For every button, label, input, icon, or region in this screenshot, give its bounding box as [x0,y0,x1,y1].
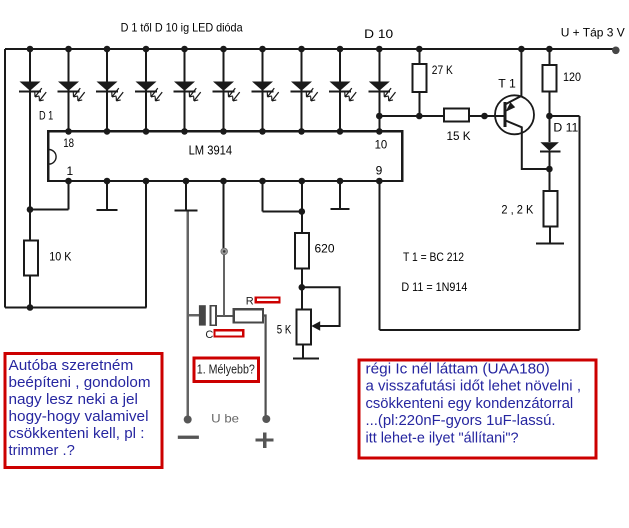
svg-text:5 K: 5 K [277,323,292,337]
svg-text:T 1: T 1 [498,77,516,91]
svg-text:120: 120 [563,70,581,84]
svg-text:D 11 = 1N914: D 11 = 1N914 [401,280,467,294]
svg-text:hogy-hogy valamivel: hogy-hogy valamivel [9,408,149,425]
svg-text:1: 1 [67,164,74,178]
svg-text:csökkenteni kell, pl :: csökkenteni kell, pl : [9,425,145,442]
svg-text:Autóba szeretném: Autóba szeretném [9,357,134,374]
svg-text:T 1 = BC 212: T 1 = BC 212 [403,250,464,264]
svg-text:10: 10 [375,137,388,151]
svg-text:D 1: D 1 [39,109,54,123]
svg-text:beépíteni , gondolom: beépíteni , gondolom [9,374,151,391]
svg-text:2 , 2 K: 2 , 2 K [501,203,533,217]
svg-text:R: R [246,296,254,308]
svg-text:trimmer .?: trimmer .? [9,442,75,459]
svg-text:27 K: 27 K [432,63,453,77]
svg-text:15 K: 15 K [447,129,471,143]
svg-text:U be: U be [211,411,239,425]
svg-text:1. Mélyebb?: 1. Mélyebb? [197,362,255,377]
svg-text:18: 18 [63,136,74,150]
svg-text:LM 3914: LM 3914 [189,143,233,157]
svg-text:nagy lesz neki a jel: nagy lesz neki a jel [9,391,138,408]
svg-text:régi Ic nél láttam (UAA180): régi Ic nél láttam (UAA180) [366,362,550,378]
svg-text:a visszafutási időt lehet növe: a visszafutási időt lehet növelni , [366,379,582,395]
svg-text:...(pl:220nF-gyors 1uF-lassú.: ...(pl:220nF-gyors 1uF-lassú. [366,413,556,429]
svg-text:10 K: 10 K [49,249,71,263]
svg-text:itt lehet-e ilyet "állítani"?: itt lehet-e ilyet "állítani"? [366,430,519,446]
svg-text:U + Táp 3 V: U + Táp 3 V [561,26,625,40]
svg-text:620: 620 [315,242,335,256]
svg-text:D 10: D 10 [364,27,393,41]
svg-text:D 11: D 11 [553,121,578,135]
svg-text:D 1 től D 10 ig LED dióda: D 1 től D 10 ig LED dióda [121,21,243,35]
svg-text:C: C [205,329,213,341]
svg-text:9: 9 [376,164,383,178]
svg-text:csökkenteni egy kondenzátorral: csökkenteni egy kondenzátorral [366,396,574,412]
